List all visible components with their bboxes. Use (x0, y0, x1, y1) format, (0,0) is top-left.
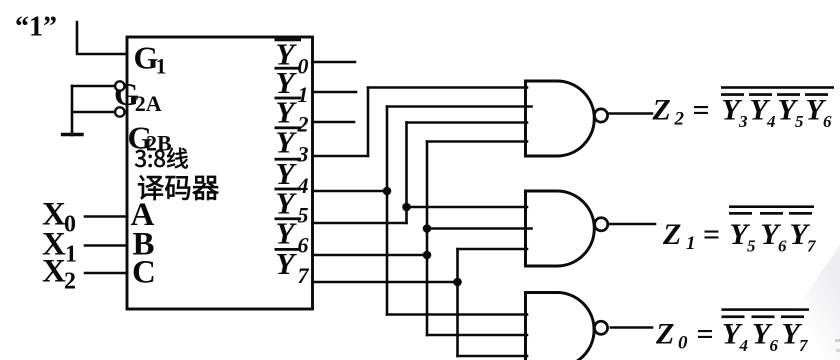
wire: net Y7 vertical (456, 249, 459, 356)
U3 output bubble (595, 218, 608, 231)
wire: Y1 output stub (313, 91, 357, 94)
svg-text:6: 6 (823, 112, 832, 131)
wire: U4 output to Z0 label (611, 326, 652, 329)
NAND gate U2 (Z2) body (526, 81, 595, 156)
svg-text:Z: Z (662, 218, 681, 251)
wire: net Y3 horizontal from U1 (313, 155, 369, 158)
pin label Y0-bar (275, 39, 302, 42)
wire: net Y5 into U2 input 3 (407, 121, 528, 124)
svg-text:6: 6 (298, 232, 309, 257)
wire: net Y5 vertical riser (405, 123, 408, 224)
pin label Y6-bar (275, 217, 302, 220)
svg-text:5: 5 (795, 112, 804, 131)
wire: net Y7 into U4 input 3 (458, 355, 528, 358)
pin label Y7-bar (275, 248, 302, 251)
wire: net Y7 horizontal from U1 (313, 281, 458, 284)
wire: net Y5 horizontal from U1 (313, 222, 407, 225)
pin label Y3-bar (275, 126, 302, 129)
NAND gate U3 (Z1) body (526, 191, 595, 266)
svg-text:6: 6 (778, 237, 787, 256)
wire: Y0 output stub (313, 61, 356, 64)
svg-text:=: = (693, 94, 710, 127)
wire: net Y4 into U2 input 2 (387, 105, 532, 108)
svg-text:=: = (703, 218, 720, 251)
svg-text:5: 5 (298, 203, 309, 228)
wire: X0 to pin A (85, 215, 127, 218)
pin label Y2-bar (275, 97, 302, 100)
junction: Y7 stub tee (453, 278, 462, 287)
svg-text:3: 3 (738, 112, 748, 131)
svg-text:4: 4 (739, 336, 749, 355)
decoder caption 3:8-line (CJK drawn as paths) (135, 148, 188, 169)
svg-text:Y: Y (276, 246, 298, 281)
svg-text:0: 0 (298, 54, 309, 79)
svg-text:X: X (42, 254, 66, 290)
svg-text:“1”: “1” (15, 12, 57, 43)
U2 output bubble (594, 109, 607, 122)
svg-text:1: 1 (65, 242, 77, 268)
wire: net Y6 vertical riser (426, 142, 429, 336)
wire: net Y6 into U3 input 2 (427, 227, 532, 230)
svg-text:=: = (697, 318, 714, 351)
junction: Y6 stub tee (423, 251, 432, 260)
svg-text:Z: Z (652, 94, 671, 127)
svg-text:2A: 2A (135, 91, 162, 116)
svg-text:2: 2 (297, 112, 309, 137)
svg-text:1: 1 (298, 82, 309, 107)
svg-text:Y: Y (276, 124, 298, 159)
wire: net Y6 into U4 input 2 (427, 334, 527, 337)
svg-text:2: 2 (674, 109, 685, 130)
svg-text:1: 1 (686, 233, 696, 254)
wire: net Y3 into U2 input 1 (368, 86, 527, 89)
wire: X1 to pin B (85, 244, 127, 247)
decoder caption "decoder" (CJK drawn as paths) (138, 175, 218, 200)
junction: Y5 branch to U3 (402, 203, 411, 212)
wire: net Y5 into U3 input 1 (407, 206, 528, 209)
svg-text:5: 5 (747, 237, 756, 256)
svg-text:1: 1 (156, 54, 167, 79)
inversion bubble on G2B pin (115, 107, 124, 116)
junction: Y4 branch to U2 (383, 187, 392, 196)
svg-text:4: 4 (297, 173, 309, 198)
decoder U1 box (3:8 decoder) (127, 37, 313, 309)
U4 output bubble (594, 321, 607, 334)
svg-text:7: 7 (298, 263, 310, 288)
wire: low rail vertical (71, 86, 74, 135)
wire: "1" tie-high vertical to G1 (77, 22, 127, 54)
wire: G2A pin from common low rail (72, 85, 115, 88)
wire: net Y6 into U2 input 4 (427, 140, 527, 143)
wire: net Y3 vertical riser (367, 88, 370, 157)
svg-text:0: 0 (678, 333, 688, 354)
NAND gate U4 (Z0) body (526, 293, 595, 360)
(decorative scan watermark band) (760, 245, 840, 360)
wire: Y2 output stub (313, 121, 355, 124)
wire: G2B pin from common low rail (72, 111, 115, 114)
wire: net Y4 into U4 input 1 (387, 313, 527, 316)
junction: Y6 branch to U3 (423, 224, 432, 233)
(decorative scan watermark marks, bottom-right) (835, 339, 840, 342)
svg-text:3: 3 (297, 141, 309, 166)
svg-text:4: 4 (766, 112, 776, 131)
wire: U3 output to Z1 label (608, 223, 655, 226)
pin label Y4-bar (275, 158, 302, 161)
svg-text:2: 2 (64, 269, 76, 295)
inversion bubble on G2A pin (115, 81, 124, 90)
wire: net Y4 vertical riser (386, 107, 389, 315)
wire: U2 output to Z2 label (608, 112, 652, 115)
ground bar (logic low) (63, 133, 83, 136)
svg-text:6: 6 (770, 336, 779, 355)
svg-text:Z: Z (655, 318, 674, 351)
wire: net Y6 horizontal from U1 (313, 254, 428, 257)
wire: net Y7 into U3 input 3 (458, 248, 528, 251)
wire: net Y4 horizontal from U1 (313, 190, 388, 193)
pin label Y1-bar (275, 67, 302, 70)
svg-text:C: C (132, 255, 156, 291)
wire: X2 to pin C (85, 272, 127, 275)
pin label Y5-bar (275, 188, 302, 191)
